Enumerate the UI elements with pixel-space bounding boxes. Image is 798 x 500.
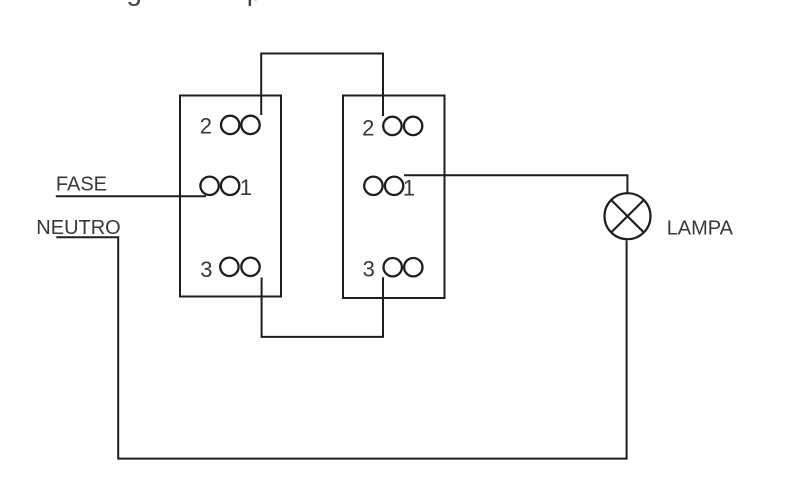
svg-text:FASE: FASE [56, 173, 107, 195]
svg-text:3: 3 [200, 257, 212, 282]
svg-text:p: p [247, 0, 263, 6]
svg-text:1: 1 [240, 175, 252, 200]
svg-text:2: 2 [362, 115, 374, 140]
svg-text:LAMPA: LAMPA [667, 218, 734, 240]
svg-text:NEUTRO: NEUTRO [36, 217, 120, 239]
svg-text:g: g [126, 0, 142, 6]
svg-text:2: 2 [200, 113, 212, 138]
svg-text:3: 3 [363, 256, 375, 281]
svg-text:1: 1 [403, 175, 415, 200]
